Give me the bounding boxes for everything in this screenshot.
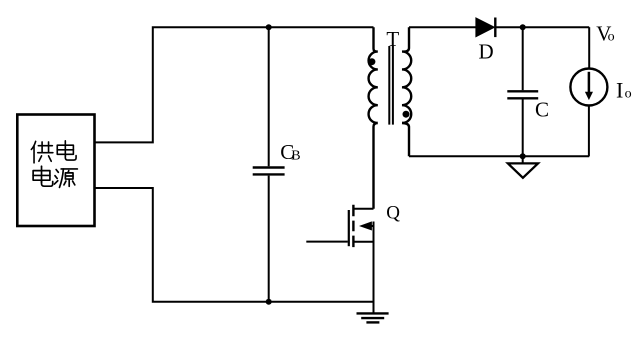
current source Io	[570, 69, 607, 106]
svg-text:C: C	[535, 98, 549, 122]
svg-text:o: o	[625, 87, 632, 102]
ground (secondary, open triangle)	[522, 156, 524, 163]
MOSFET Q channel bars	[352, 205, 354, 247]
wire: box top stub + left riser + top rail to transformer	[95, 27, 374, 142]
glyph 电 line1	[57, 141, 76, 160]
node: junction bottom rail / C / ground	[520, 153, 526, 159]
node: junction bottom rail / CB	[266, 299, 272, 305]
wire: gate lead	[306, 241, 348, 243]
capacitor CB	[268, 27, 270, 166]
transformer T primary winding	[369, 27, 378, 209]
svg-text:I: I	[616, 77, 623, 102]
wire: secondary top to diode anode	[409, 26, 477, 28]
MOSFET Q source connection	[353, 241, 373, 243]
node: junction top rail / CB	[266, 24, 272, 30]
transformer polarity dot primary	[368, 58, 375, 65]
glyph 源 line2	[54, 169, 77, 187]
MOSFET Q gate bar	[348, 210, 350, 246]
MOSFET Q body arrow	[359, 221, 372, 230]
wire: current source to bottom rail	[588, 105, 590, 156]
svg-text:Q: Q	[386, 202, 400, 223]
svg-text:o: o	[608, 30, 615, 45]
ground (primary side, bars)	[357, 312, 389, 314]
node: junction diode / C	[520, 24, 526, 30]
wire: box bottom stub + left drop + bottom rail to MOSFET source	[95, 188, 374, 302]
glyph 电 line2	[33, 166, 53, 186]
供电电源 source box	[17, 115, 94, 227]
MOSFET Q drain connection	[353, 208, 373, 210]
transformer core	[389, 46, 393, 125]
svg-text:T: T	[386, 27, 399, 51]
diode D	[476, 18, 495, 37]
wire: source lead down to ground	[373, 222, 375, 314]
transformer polarity dot secondary	[403, 111, 410, 118]
wire: secondary bottom rail	[409, 155, 589, 157]
transformer T secondary winding	[402, 27, 411, 156]
svg-text:D: D	[479, 40, 494, 64]
glyph 供 line1	[31, 141, 53, 163]
wire: right riser to current source	[588, 27, 590, 69]
wire: diode cathode to top-right corner	[495, 26, 589, 28]
capacitor C	[522, 27, 524, 90]
svg-text:B: B	[291, 148, 300, 163]
